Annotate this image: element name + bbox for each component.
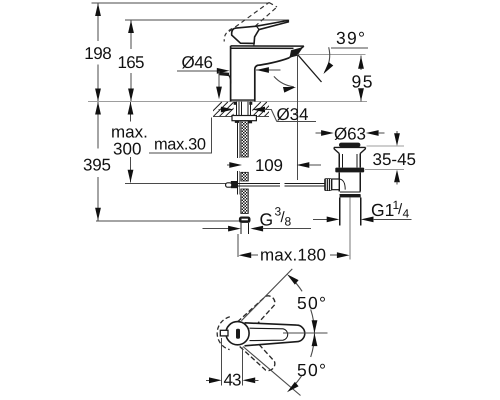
dimension max300 vertical line xyxy=(130,102,132,183)
top view lever xyxy=(245,323,305,346)
svg-text:198: 198 xyxy=(84,44,112,63)
ref line 3545 top xyxy=(367,145,405,147)
hose nut xyxy=(239,217,251,223)
arrow 165 up xyxy=(128,20,134,33)
locknut tab left xyxy=(235,121,240,123)
dim 43 xyxy=(206,379,210,381)
arrow 198 up xyxy=(95,3,101,16)
pop-up rod curve xyxy=(229,75,231,84)
arrow 95 down xyxy=(358,88,364,101)
dimension 165 vertical line xyxy=(130,20,132,102)
spout axis reference line xyxy=(298,54,366,56)
lever raised dashed line 1 xyxy=(229,3,269,32)
faucet body top edge xyxy=(231,46,304,49)
arrow 50deg upper-bottom xyxy=(312,320,318,333)
svg-text:G1: G1 xyxy=(371,200,394,220)
linkage rod xyxy=(232,184,324,186)
lower rotation limit line xyxy=(243,347,301,396)
aerator xyxy=(290,47,304,58)
drain seal washer xyxy=(335,168,364,173)
dim G38 left xyxy=(203,228,230,230)
lever raised dashed line 2 xyxy=(244,7,278,37)
dim dia63 right xyxy=(366,130,379,136)
shank corner right xyxy=(249,102,252,105)
svg-text:max.180: max.180 xyxy=(260,246,326,265)
arrow 198 down xyxy=(95,89,101,102)
drain lower body xyxy=(339,172,360,191)
supply hose mid xyxy=(241,172,249,181)
svg-text:395: 395 xyxy=(83,156,111,175)
drain inner curve xyxy=(339,179,345,190)
svg-text:Ø46: Ø46 xyxy=(182,53,214,72)
counter top line xyxy=(88,101,367,103)
dim dia34 right xyxy=(252,107,265,113)
svg-text:35-45: 35-45 xyxy=(373,150,417,169)
dim G114 left xyxy=(313,218,327,220)
svg-text:8: 8 xyxy=(285,215,292,229)
arrow 95 up xyxy=(358,56,364,69)
leader dia46 xyxy=(177,70,219,72)
rod clamp xyxy=(231,181,237,188)
linkage knurled knob xyxy=(324,178,332,191)
svg-text:G: G xyxy=(260,210,274,230)
lift rod xyxy=(237,121,239,195)
39deg arc left xyxy=(274,76,294,86)
svg-text:Ø63: Ø63 xyxy=(334,125,366,144)
faucet body outline xyxy=(231,46,290,102)
aerator stub top view xyxy=(220,330,228,336)
arrow 50deg upper-top xyxy=(285,272,298,285)
top view pivot circle xyxy=(226,322,249,345)
mounting shank threads xyxy=(236,102,250,116)
supply hose upper xyxy=(241,121,249,157)
spout tip projection line xyxy=(297,55,299,180)
arrow 50deg lower-top xyxy=(312,333,318,346)
dim dia34 left xyxy=(219,109,223,111)
ext line max180 left xyxy=(237,234,239,257)
arrow 39deg arc right-end xyxy=(283,84,297,93)
svg-text:300: 300 xyxy=(113,140,142,159)
drain outlet stub xyxy=(332,179,339,190)
dim 3545 bottom xyxy=(394,170,400,183)
drain body nut xyxy=(340,192,361,195)
svg-text:43: 43 xyxy=(224,370,242,389)
50deg upper arc xyxy=(291,278,315,333)
arrow max300 up xyxy=(128,102,134,115)
faucet base edge xyxy=(231,99,255,101)
dashed lever down xyxy=(238,333,279,374)
counter hatching left xyxy=(208,102,246,116)
dim 109 right xyxy=(297,162,310,168)
svg-text:165: 165 xyxy=(118,53,145,72)
drain flange xyxy=(334,147,366,153)
dimension 198 vertical line xyxy=(97,3,99,102)
dashed swing arc xyxy=(217,317,230,350)
svg-text:39°: 39° xyxy=(336,28,365,48)
hose nut highlight xyxy=(242,219,248,221)
dim dia63 left xyxy=(316,132,323,134)
counter hatching right xyxy=(247,102,279,116)
rod end cap xyxy=(226,183,232,187)
ref line 3545 bottom xyxy=(365,168,404,170)
underline 39deg xyxy=(331,47,368,49)
ext line 43 left xyxy=(221,338,223,386)
spout nose edge xyxy=(289,46,304,58)
dim G38 right xyxy=(250,226,263,232)
lever crease xyxy=(257,26,260,29)
shank corner left xyxy=(234,102,237,105)
counter bottom line xyxy=(213,116,269,118)
svg-text:max.30: max.30 xyxy=(154,136,206,154)
svg-text:4: 4 xyxy=(403,207,410,221)
svg-text:50°: 50° xyxy=(297,293,326,313)
dimension line 198 top reference xyxy=(92,2,271,4)
dimension line 165 top reference xyxy=(125,19,288,21)
dim 3545 top xyxy=(396,131,398,134)
dim G114 right xyxy=(361,217,374,223)
svg-text:Ø34: Ø34 xyxy=(277,105,309,124)
svg-text:50°: 50° xyxy=(297,360,326,380)
50deg lower arc xyxy=(291,333,315,388)
arrow 395 down xyxy=(95,208,101,221)
spout reach arrow xyxy=(256,69,280,71)
drain tailpiece xyxy=(340,197,361,225)
mounting locknut xyxy=(232,116,256,121)
dim max180 xyxy=(239,252,252,258)
top view lever inner xyxy=(250,328,288,340)
dimension 395 vertical line xyxy=(97,102,99,221)
arrow 395 up xyxy=(95,102,101,115)
ext line 43 right xyxy=(242,348,244,386)
arrow max300 down xyxy=(128,170,134,183)
pop-up rod knob xyxy=(220,72,230,76)
leader dia46 vertical xyxy=(218,71,220,95)
extension line max300 bottom xyxy=(125,182,227,184)
leader max30 xyxy=(149,117,212,153)
dim 109 left xyxy=(227,164,230,166)
supply hose lower xyxy=(241,189,249,214)
svg-text:95: 95 xyxy=(352,72,373,92)
arrow 165 down xyxy=(128,89,134,102)
dashed lever up xyxy=(238,292,279,333)
lever handle xyxy=(232,20,289,43)
lever neck line xyxy=(253,43,255,46)
drain plug xyxy=(339,143,360,148)
supply tube xyxy=(241,223,249,234)
upper rotation limit line xyxy=(241,269,292,321)
lever swing dashed arc xyxy=(224,29,232,42)
arrow dia46 down xyxy=(216,87,222,100)
dimension 95 vertical line xyxy=(360,56,362,102)
arrow 50deg lower-bottom xyxy=(285,382,298,395)
arrow dia46 right xyxy=(217,68,230,74)
39deg arc right xyxy=(325,47,330,72)
lever raised dashed tip xyxy=(269,3,277,8)
extension line 395 bottom xyxy=(96,220,241,222)
drain tailpiece centerline xyxy=(349,197,351,259)
locknut tab right xyxy=(248,121,253,124)
handle centerline xyxy=(283,332,328,334)
arrow 39deg arc lower xyxy=(321,62,333,76)
svg-text:109: 109 xyxy=(255,156,283,175)
pivot center mark xyxy=(236,329,240,339)
drain upper body xyxy=(339,154,360,168)
water stream line xyxy=(298,55,322,82)
